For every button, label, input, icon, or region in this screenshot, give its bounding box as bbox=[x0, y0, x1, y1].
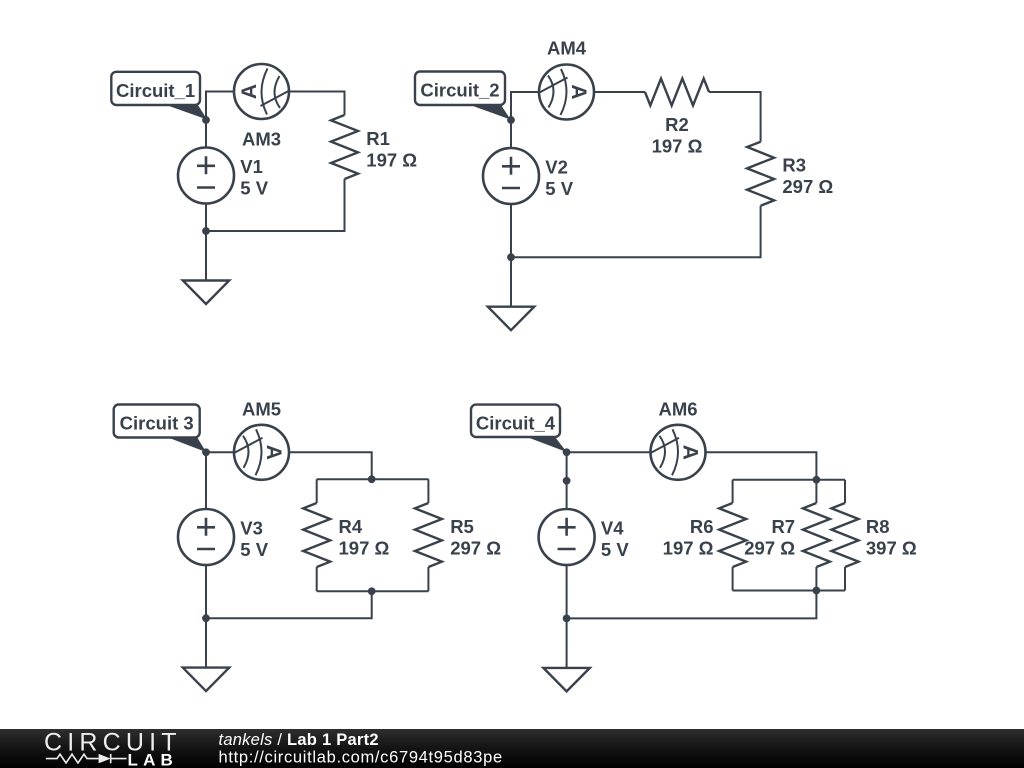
resistor R7 bbox=[803, 503, 830, 567]
svg-text:AM6: AM6 bbox=[658, 399, 697, 420]
resistor R2 bbox=[645, 79, 709, 106]
ammeter AM6 bbox=[651, 425, 706, 480]
wire V1 bottom to node2 bbox=[205, 204, 207, 232]
ground (circuit 3) bbox=[183, 668, 229, 692]
svg-text:R2: R2 bbox=[665, 114, 689, 135]
wire node1 to V3 top bbox=[205, 452, 207, 509]
wire R2 to R3 top bbox=[709, 92, 761, 142]
svg-text:397 Ω: 397 Ω bbox=[866, 538, 917, 559]
svg-text:Circuit 3: Circuit 3 bbox=[120, 412, 194, 433]
logo diode bbox=[99, 754, 111, 763]
wire node1 to ammeter AM3 bbox=[206, 92, 234, 121]
junction dot top rail bbox=[813, 476, 821, 484]
R5 stubs bbox=[427, 479, 429, 591]
resistor R3 bbox=[747, 142, 774, 206]
svg-text:R7: R7 bbox=[771, 516, 795, 537]
wire R1 bottom to node2 bbox=[206, 179, 345, 231]
resistor R4 bbox=[303, 503, 330, 567]
wire node1 to ammeter AM6 bbox=[567, 451, 650, 453]
label Circuit 3 callout tail bbox=[165, 436, 206, 452]
voltage source V2 bbox=[483, 148, 539, 204]
ammeter AM3 bbox=[234, 64, 289, 119]
R6 stubs bbox=[732, 480, 734, 591]
wire node2 to ground bbox=[510, 257, 512, 307]
svg-text:197 Ω: 197 Ω bbox=[339, 538, 390, 559]
wire rail to bottom wire bbox=[206, 591, 372, 618]
svg-text:V4: V4 bbox=[601, 518, 624, 539]
logo zigzag wire bbox=[46, 754, 99, 763]
wire V2 bottom to node2 bbox=[510, 204, 512, 257]
resistor R8 bbox=[832, 503, 859, 567]
label Circuit 3 box bbox=[114, 405, 200, 438]
label Circuit_4 callout tail bbox=[525, 436, 567, 452]
node B (bottom) bbox=[202, 614, 210, 622]
svg-text:297 Ω: 297 Ω bbox=[782, 176, 833, 197]
svg-text:R1: R1 bbox=[366, 128, 390, 149]
node A bbox=[202, 448, 210, 456]
R4 stubs bbox=[316, 479, 318, 591]
label Circuit_1 callout tail bbox=[162, 104, 207, 120]
node A bbox=[563, 448, 571, 456]
wire node1 to V2 top bbox=[510, 120, 512, 148]
wire node1 to ammeter AM4 bbox=[511, 92, 539, 120]
svg-text:197 Ω: 197 Ω bbox=[652, 135, 703, 156]
svg-text:5 V: 5 V bbox=[240, 539, 268, 560]
voltage source V3 bbox=[178, 509, 234, 565]
svg-text:5 V: 5 V bbox=[545, 178, 573, 199]
svg-text:Circuit_4: Circuit_4 bbox=[476, 413, 556, 434]
resistor R5 bbox=[415, 503, 442, 567]
wire V4 bottom to node2 bbox=[566, 565, 568, 618]
svg-text:5 V: 5 V bbox=[240, 178, 268, 199]
wire node2 to ground bbox=[205, 618, 207, 667]
wire node1 to V4 top bbox=[566, 452, 568, 509]
bottom rail bbox=[733, 590, 845, 592]
wire node2 to ground bbox=[566, 618, 568, 668]
wire AM4 to R2 bbox=[594, 91, 645, 93]
svg-text:R8: R8 bbox=[866, 516, 890, 537]
voltage source V4 bbox=[539, 509, 595, 565]
label Circuit_2 callout tail bbox=[466, 104, 511, 120]
label Circuit_2 box bbox=[415, 72, 505, 106]
R7 stubs bbox=[815, 480, 817, 591]
svg-text:tankels / Lab 1 Part2: tankels / Lab 1 Part2 bbox=[219, 731, 379, 749]
svg-text:5 V: 5 V bbox=[601, 539, 629, 560]
svg-text:LAB: LAB bbox=[128, 751, 179, 768]
bottom rail bbox=[317, 590, 429, 592]
wire AM5 to rail junction bbox=[289, 452, 372, 479]
wire AM6 to rail junction bbox=[706, 452, 816, 480]
wire node1 to ammeter AM5 bbox=[206, 451, 234, 453]
label Circuit_4 box bbox=[471, 405, 560, 437]
top rail bbox=[733, 479, 845, 481]
ground (circuit 2) bbox=[488, 307, 534, 331]
wire AM3 to R1 top bbox=[289, 92, 345, 116]
svg-text:Circuit_1: Circuit_1 bbox=[116, 80, 195, 101]
svg-text:AM3: AM3 bbox=[242, 129, 281, 150]
node B (bottom) bbox=[507, 253, 515, 261]
node B (bottom) bbox=[563, 615, 571, 623]
svg-text:R4: R4 bbox=[339, 516, 363, 537]
svg-text:V2: V2 bbox=[545, 157, 568, 178]
svg-text:V3: V3 bbox=[240, 518, 263, 539]
resistor R1 bbox=[331, 115, 358, 179]
svg-text:V1: V1 bbox=[240, 156, 263, 177]
svg-text:R3: R3 bbox=[782, 155, 806, 176]
resistor R6 bbox=[719, 503, 746, 567]
top rail bbox=[317, 478, 429, 480]
voltage source V1 bbox=[178, 148, 234, 204]
svg-text:Circuit_2: Circuit_2 bbox=[420, 79, 499, 100]
svg-text:AM5: AM5 bbox=[242, 398, 281, 419]
wire R3 bottom to node2 bbox=[511, 206, 761, 258]
R8 stubs bbox=[844, 480, 846, 591]
wire node2 to ground bbox=[205, 231, 207, 281]
node A (top) bbox=[507, 116, 515, 124]
label Circuit_1 box bbox=[111, 72, 200, 105]
wire node1 to V1 top bbox=[205, 120, 207, 148]
svg-text:AM4: AM4 bbox=[547, 38, 587, 59]
ammeter AM5 bbox=[234, 425, 289, 480]
junction dot bottom rail bbox=[368, 587, 376, 595]
wire V3 bottom to node2 bbox=[205, 565, 207, 618]
svg-text:R5: R5 bbox=[450, 516, 474, 537]
node B (bottom) bbox=[202, 227, 210, 235]
junction dot on left wire bbox=[563, 477, 571, 485]
svg-text:R6: R6 bbox=[690, 516, 714, 537]
svg-text:http://circuitlab.com/c6794t95: http://circuitlab.com/c6794t95d83pe bbox=[219, 749, 503, 767]
svg-text:297 Ω: 297 Ω bbox=[744, 538, 795, 559]
ground (circuit 4) bbox=[543, 668, 589, 692]
ground (circuit 1) bbox=[183, 281, 229, 305]
wire rail to bottom wire bbox=[567, 591, 817, 619]
ammeter AM4 bbox=[539, 65, 594, 120]
node A (top) bbox=[202, 116, 210, 124]
junction dot top rail bbox=[368, 475, 376, 483]
svg-text:197 Ω: 197 Ω bbox=[663, 538, 714, 559]
svg-text:297 Ω: 297 Ω bbox=[450, 538, 501, 559]
junction dot bottom rail bbox=[813, 587, 821, 595]
svg-text:197 Ω: 197 Ω bbox=[366, 149, 417, 170]
